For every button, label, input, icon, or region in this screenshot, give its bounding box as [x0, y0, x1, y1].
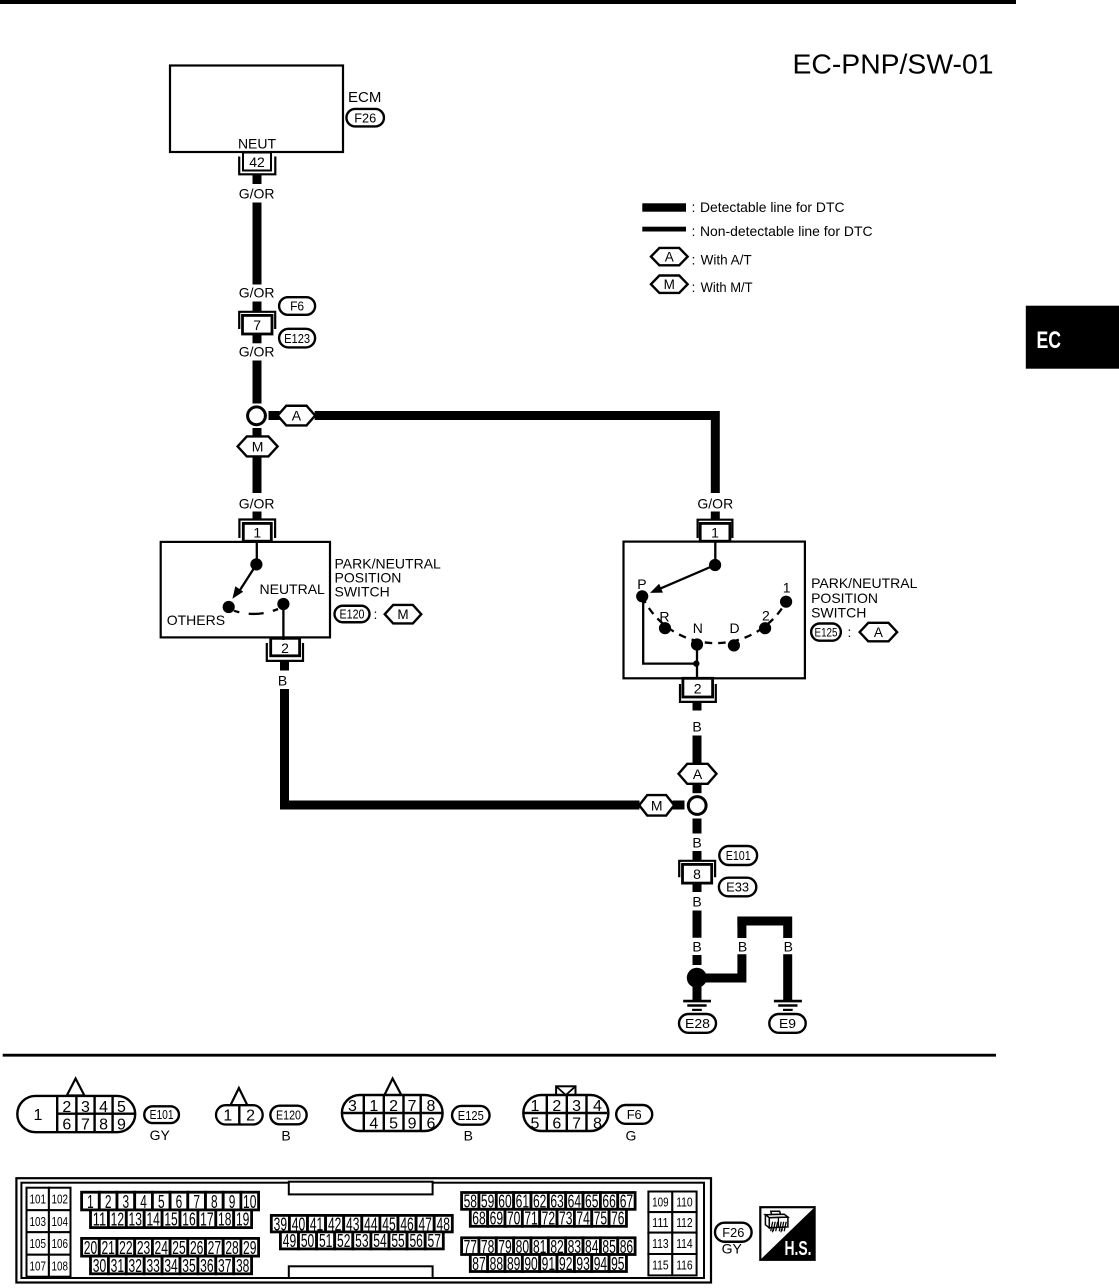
- svg-text:3: 3: [81, 1099, 90, 1116]
- wire stub below pin 8: [693, 884, 702, 892]
- EC section tab: [1026, 306, 1119, 369]
- connector label F6: [279, 297, 315, 315]
- left park/neutral position switch box: [161, 542, 330, 638]
- ECM connector outer outline: [16, 1178, 711, 1282]
- svg-text:49: 49: [283, 1230, 296, 1251]
- E120 pin 1 bracket: [239, 520, 275, 539]
- svg-text:B: B: [278, 673, 287, 689]
- connector F6 body: [523, 1095, 608, 1131]
- ground symbol E9: [774, 1000, 802, 1003]
- wire stub below pin 42: [253, 175, 262, 185]
- svg-text:74: 74: [576, 1208, 589, 1229]
- wire stub to E120 pin 1: [253, 512, 262, 521]
- ECM connector inner outline: [21, 1183, 704, 1278]
- svg-text:E33: E33: [726, 880, 749, 895]
- harness side view symbol H.S.: [760, 1207, 814, 1260]
- wire M/T branch: [253, 456, 262, 493]
- svg-text:E125: E125: [815, 625, 838, 639]
- E120 pin 2 box: [271, 638, 300, 656]
- connector E101 triangle marker: [67, 1079, 85, 1096]
- svg-text:102: 102: [51, 1193, 68, 1207]
- svg-text:N: N: [693, 620, 703, 636]
- connector E125 triangle marker: [384, 1079, 401, 1096]
- svg-text:3: 3: [348, 1098, 357, 1115]
- svg-text:105: 105: [29, 1237, 46, 1251]
- svg-text:G/OR: G/OR: [239, 185, 275, 201]
- svg-text:92: 92: [559, 1253, 572, 1274]
- svg-text:1: 1: [531, 1098, 540, 1115]
- switch common feed line: [714, 542, 716, 561]
- svg-text:70: 70: [507, 1208, 520, 1229]
- E125 pin 1 bracket: [698, 520, 733, 538]
- switch common feed line: [256, 542, 258, 560]
- connector label E123: [279, 329, 315, 348]
- svg-text:34: 34: [164, 1255, 177, 1276]
- svg-text:Detectable line for DTC: Detectable line for DTC: [700, 199, 845, 215]
- svg-text:B: B: [692, 719, 701, 735]
- pin row 11-19: [91, 1210, 109, 1228]
- svg-text:SWITCH: SWITCH: [811, 604, 866, 620]
- svg-text:PARK/NEUTRAL: PARK/NEUTRAL: [811, 575, 918, 591]
- svg-text:11: 11: [93, 1209, 106, 1230]
- pin row 30-38: [91, 1256, 109, 1274]
- legend thick bar detectable: [642, 203, 686, 211]
- svg-text:A: A: [292, 408, 302, 424]
- wire to hexagon A: [693, 736, 702, 765]
- svg-text:112: 112: [676, 1216, 693, 1230]
- dashed selector arc: [642, 596, 786, 643]
- contact dot 2: [759, 622, 771, 634]
- ground symbol E28: [683, 1000, 711, 1003]
- svg-text:E120: E120: [340, 608, 365, 622]
- svg-text:E101: E101: [150, 1108, 174, 1122]
- connector label E125: [452, 1106, 490, 1125]
- hexagon M with M/T: [639, 795, 674, 816]
- svg-text:4: 4: [99, 1099, 108, 1116]
- svg-text:G/OR: G/OR: [239, 495, 275, 511]
- svg-text:1: 1: [223, 1108, 232, 1125]
- legend hexagon M: [651, 276, 688, 293]
- svg-text:30: 30: [93, 1255, 106, 1276]
- wire stub to ground E28: [693, 986, 702, 1001]
- harness connector icon: [771, 1211, 781, 1214]
- separator rule: [3, 1054, 996, 1057]
- svg-text:6: 6: [552, 1116, 561, 1133]
- svg-text:NEUT: NEUT: [238, 136, 277, 152]
- svg-text:A: A: [693, 766, 703, 782]
- svg-text:18: 18: [218, 1209, 231, 1230]
- svg-text::: :: [692, 199, 696, 215]
- contact dot NEUTRAL: [277, 598, 289, 610]
- svg-text::: :: [374, 606, 378, 622]
- svg-text:E123: E123: [284, 331, 310, 346]
- switch arm arrow to OTHERS: [238, 564, 257, 593]
- svg-text:9: 9: [408, 1116, 417, 1133]
- svg-text:6: 6: [62, 1116, 71, 1133]
- svg-text:101: 101: [29, 1193, 46, 1207]
- svg-text:B: B: [281, 1127, 290, 1143]
- svg-text:F26: F26: [722, 1225, 744, 1240]
- contact dot R: [659, 622, 671, 634]
- svg-text:33: 33: [146, 1255, 159, 1276]
- wire stub node to hexagon M: [253, 428, 262, 437]
- svg-text:9: 9: [117, 1116, 126, 1133]
- svg-text:56: 56: [409, 1230, 422, 1251]
- svg-text:B: B: [784, 939, 793, 955]
- svg-text:55: 55: [391, 1230, 404, 1251]
- svg-text:M: M: [651, 797, 663, 813]
- svg-text:87: 87: [472, 1253, 485, 1274]
- svg-text:F6: F6: [627, 1107, 642, 1122]
- connector label E101: [719, 846, 757, 865]
- svg-text:M: M: [664, 277, 675, 292]
- pin grid 109-116: [648, 1192, 672, 1213]
- svg-text:2: 2: [694, 680, 702, 696]
- ECM pin 42 box: [243, 153, 271, 171]
- hexagon A with A/T: [679, 764, 717, 784]
- ground label E28: [679, 1014, 716, 1033]
- E125 pin 2 bracket: [680, 684, 716, 702]
- svg-text:73: 73: [559, 1208, 572, 1229]
- svg-text:D: D: [729, 620, 739, 636]
- svg-text:3: 3: [572, 1098, 581, 1115]
- svg-text:7: 7: [81, 1116, 90, 1133]
- svg-text:1: 1: [34, 1107, 43, 1124]
- ECM connector label F26: [346, 109, 384, 127]
- ECM box: [170, 66, 343, 153]
- wire stub below pin 7: [253, 334, 262, 343]
- svg-text:116: 116: [676, 1258, 693, 1272]
- svg-text:115: 115: [652, 1258, 669, 1272]
- svg-text:B: B: [692, 835, 701, 851]
- top border rule: [0, 0, 1016, 4]
- svg-text:16: 16: [182, 1209, 195, 1230]
- switch common contact dot: [250, 558, 262, 570]
- wire stub below E120 pin 2: [280, 661, 289, 671]
- contact dot D: [728, 639, 740, 651]
- svg-text:36: 36: [200, 1255, 213, 1276]
- svg-text:M: M: [397, 607, 408, 622]
- wire stub: [693, 955, 702, 965]
- wire stub node to hexagon A: [269, 411, 280, 420]
- svg-text:17: 17: [200, 1209, 213, 1230]
- svg-text:13: 13: [129, 1209, 142, 1230]
- connector F6 grid: [546, 1095, 548, 1131]
- pin row 87-95: [470, 1255, 487, 1272]
- svg-text:E9: E9: [779, 1016, 796, 1031]
- dashed contact arc: [234, 609, 279, 614]
- joint connector pin 8 box: [683, 864, 712, 883]
- ECM pin 42 connector bracket: [239, 157, 275, 175]
- contact dot 1: [780, 596, 792, 608]
- svg-text:B: B: [464, 1127, 473, 1143]
- connector label E101: [144, 1106, 179, 1123]
- svg-text:103: 103: [29, 1215, 46, 1229]
- svg-text:Non-detectable line for DTC: Non-detectable line for DTC: [700, 223, 873, 239]
- ground label E9: [769, 1014, 805, 1033]
- svg-text:H.S.: H.S.: [785, 1238, 812, 1260]
- E120 pin 2 bracket: [267, 643, 303, 661]
- hexagon M with M/T: [238, 436, 278, 456]
- svg-text:4: 4: [593, 1098, 602, 1115]
- legend thin bar non-detectable: [642, 227, 686, 232]
- wire detectable A/T branch to E125 pin 1: [315, 416, 716, 494]
- svg-text:2: 2: [389, 1098, 398, 1115]
- wire: [693, 911, 702, 938]
- svg-text:A: A: [874, 625, 883, 640]
- svg-text:51: 51: [319, 1230, 332, 1251]
- joint connector pin 7 box: [243, 315, 273, 334]
- wire B detectable to hexagon M: [285, 689, 640, 805]
- pin row 1-10: [82, 1192, 100, 1210]
- wire stub to E125 pin 1: [711, 512, 720, 521]
- legend hexagon A: [651, 248, 688, 265]
- connector label F26: [715, 1223, 752, 1242]
- connector E125 grid: [363, 1095, 365, 1131]
- connector label E120: [270, 1106, 306, 1125]
- svg-text:G/OR: G/OR: [239, 344, 275, 360]
- svg-text:P: P: [637, 576, 646, 592]
- branch wire to ground E9: [701, 954, 742, 978]
- svg-text:G/OR: G/OR: [697, 495, 733, 511]
- svg-text:89: 89: [507, 1253, 520, 1274]
- hexagon A with A/T: [860, 623, 898, 642]
- svg-text:5: 5: [531, 1116, 540, 1133]
- svg-text:114: 114: [676, 1237, 693, 1251]
- svg-text:32: 32: [129, 1255, 142, 1276]
- wire stub above pin 8: [693, 851, 702, 860]
- hexagon M with M/T: [385, 605, 422, 624]
- connector F6 female marker: [556, 1086, 575, 1095]
- svg-text:E28: E28: [685, 1016, 710, 1031]
- contact dot N: [691, 638, 703, 650]
- svg-text:37: 37: [218, 1255, 231, 1276]
- svg-text:12: 12: [111, 1209, 124, 1230]
- connector label F6: [616, 1105, 652, 1124]
- E120 pin 1 box: [243, 523, 271, 541]
- svg-text:F6: F6: [290, 299, 304, 314]
- svg-text:75: 75: [594, 1208, 607, 1229]
- svg-text:1: 1: [783, 580, 791, 596]
- svg-text:With M/T: With M/T: [701, 279, 753, 295]
- svg-text:NEUTRAL: NEUTRAL: [260, 581, 326, 597]
- svg-text:106: 106: [51, 1237, 68, 1251]
- connector E125 body: [342, 1095, 443, 1131]
- svg-text:94: 94: [594, 1253, 607, 1274]
- connector E120 body: [216, 1105, 263, 1124]
- svg-text:2: 2: [762, 607, 770, 623]
- svg-text:1: 1: [253, 524, 261, 540]
- svg-text:52: 52: [337, 1230, 350, 1251]
- joint connector bracket: [239, 312, 275, 329]
- svg-text:50: 50: [301, 1230, 314, 1251]
- svg-text:2: 2: [246, 1108, 255, 1125]
- svg-text:EC-PNP/SW-01: EC-PNP/SW-01: [793, 48, 994, 79]
- hexagon A with A/T: [278, 406, 316, 426]
- svg-text:1: 1: [711, 524, 719, 540]
- svg-text:2: 2: [552, 1098, 561, 1115]
- svg-text::: :: [848, 624, 852, 640]
- junction dot: [693, 660, 699, 666]
- svg-text:8: 8: [427, 1098, 436, 1115]
- svg-text:108: 108: [51, 1259, 68, 1273]
- svg-text:A: A: [665, 249, 674, 264]
- svg-text:6: 6: [427, 1116, 436, 1133]
- svg-text:14: 14: [146, 1209, 159, 1230]
- svg-text:8: 8: [593, 1116, 602, 1133]
- E125 pin 2 box: [683, 678, 713, 697]
- wire G/OR detectable: [253, 203, 262, 285]
- svg-text:110: 110: [676, 1195, 693, 1209]
- svg-text:B: B: [692, 894, 701, 910]
- svg-text:95: 95: [611, 1253, 624, 1274]
- N contact line to pin 2: [696, 650, 698, 680]
- pin grid 101-108: [27, 1188, 49, 1211]
- switch arm arrow to P: [660, 565, 715, 589]
- connector E101 body: [17, 1096, 135, 1132]
- svg-text:109: 109: [652, 1195, 669, 1209]
- svg-text:42: 42: [249, 154, 265, 170]
- svg-text:104: 104: [51, 1215, 68, 1229]
- svg-text:91: 91: [542, 1253, 555, 1274]
- svg-text:38: 38: [236, 1255, 249, 1276]
- svg-text:5: 5: [389, 1116, 398, 1133]
- svg-text:GY: GY: [150, 1127, 171, 1143]
- svg-text:EC: EC: [1037, 327, 1062, 354]
- svg-text:88: 88: [490, 1253, 503, 1274]
- svg-text:E125: E125: [458, 1109, 484, 1123]
- pin row 39-48: [271, 1215, 289, 1232]
- svg-text:With A/T: With A/T: [701, 251, 752, 267]
- svg-text:31: 31: [111, 1255, 124, 1276]
- svg-text:SWITCH: SWITCH: [335, 584, 390, 600]
- neutral contact line to pin 2: [282, 604, 284, 640]
- pin row 20-29: [82, 1238, 100, 1256]
- connector E101 grid: [56, 1096, 58, 1132]
- svg-text:4: 4: [369, 1116, 378, 1133]
- svg-text:1: 1: [369, 1098, 378, 1115]
- wire stub above joint connector: [253, 302, 262, 313]
- svg-text:57: 57: [428, 1230, 441, 1251]
- svg-text:8: 8: [99, 1116, 108, 1133]
- svg-text::: :: [692, 223, 696, 239]
- svg-text:F26: F26: [354, 110, 376, 125]
- svg-text:93: 93: [576, 1253, 589, 1274]
- connector E120 triangle marker: [231, 1088, 248, 1105]
- E125 pin 1 box: [700, 523, 730, 541]
- pin row 77-86: [462, 1238, 479, 1255]
- svg-text:111: 111: [652, 1216, 669, 1230]
- pin row 58-67: [462, 1193, 479, 1210]
- ECM connector top slot: [289, 1182, 433, 1195]
- wire stub below E125 pin 2: [693, 702, 702, 711]
- svg-text:B: B: [738, 939, 747, 955]
- wire stub hexagon M to node: [673, 801, 685, 810]
- svg-text:72: 72: [542, 1208, 555, 1229]
- svg-text:8: 8: [693, 866, 701, 882]
- svg-text:B: B: [692, 939, 701, 955]
- connector label E33: [719, 878, 756, 897]
- svg-text:G: G: [626, 1127, 637, 1143]
- pin row 68-76: [470, 1209, 487, 1226]
- contact dot P: [636, 590, 648, 602]
- svg-text:76: 76: [611, 1208, 624, 1229]
- svg-text:35: 35: [182, 1255, 195, 1276]
- svg-text:M: M: [252, 438, 264, 454]
- svg-text:E120: E120: [276, 1109, 301, 1123]
- svg-text:7: 7: [572, 1116, 581, 1133]
- svg-text:G/OR: G/OR: [239, 284, 275, 300]
- right park/neutral position switch box: [624, 542, 805, 679]
- svg-text:107: 107: [29, 1259, 46, 1273]
- svg-text:69: 69: [490, 1208, 503, 1229]
- svg-text:19: 19: [236, 1209, 249, 1230]
- contact dot OTHERS: [223, 601, 235, 613]
- svg-text:OTHERS: OTHERS: [167, 612, 225, 628]
- svg-text:15: 15: [164, 1209, 177, 1230]
- svg-text:113: 113: [652, 1237, 669, 1251]
- wire stub below node: [693, 819, 702, 834]
- svg-text:68: 68: [472, 1208, 485, 1229]
- ECM connector bottom slot: [289, 1266, 433, 1278]
- connector label E120: [335, 606, 370, 623]
- svg-text:71: 71: [524, 1208, 537, 1229]
- wire stub hexagon A to node: [693, 784, 702, 793]
- svg-text::: :: [692, 251, 696, 267]
- svg-text:ECM: ECM: [348, 89, 381, 106]
- connector label E125: [811, 624, 841, 641]
- svg-text:5: 5: [117, 1099, 126, 1116]
- wire to split node: [253, 361, 262, 404]
- merge node circle: [688, 797, 706, 815]
- svg-text:90: 90: [524, 1253, 537, 1274]
- svg-text::: :: [692, 279, 696, 295]
- svg-text:7: 7: [253, 317, 261, 333]
- svg-text:E101: E101: [726, 848, 751, 863]
- pin row 49-57: [280, 1232, 298, 1249]
- P branch line to junction: [643, 601, 694, 664]
- svg-text:7: 7: [408, 1098, 417, 1115]
- joint connector bracket: [679, 861, 715, 878]
- svg-text:2: 2: [62, 1099, 71, 1116]
- svg-text:53: 53: [355, 1230, 368, 1251]
- svg-text:2: 2: [281, 640, 289, 656]
- connector E120 grid: [238, 1105, 240, 1124]
- svg-text:GY: GY: [722, 1241, 743, 1257]
- svg-text:54: 54: [373, 1230, 386, 1251]
- ground junction dot: [687, 968, 707, 988]
- switch common contact dot: [709, 559, 721, 571]
- split node circle: [248, 407, 266, 425]
